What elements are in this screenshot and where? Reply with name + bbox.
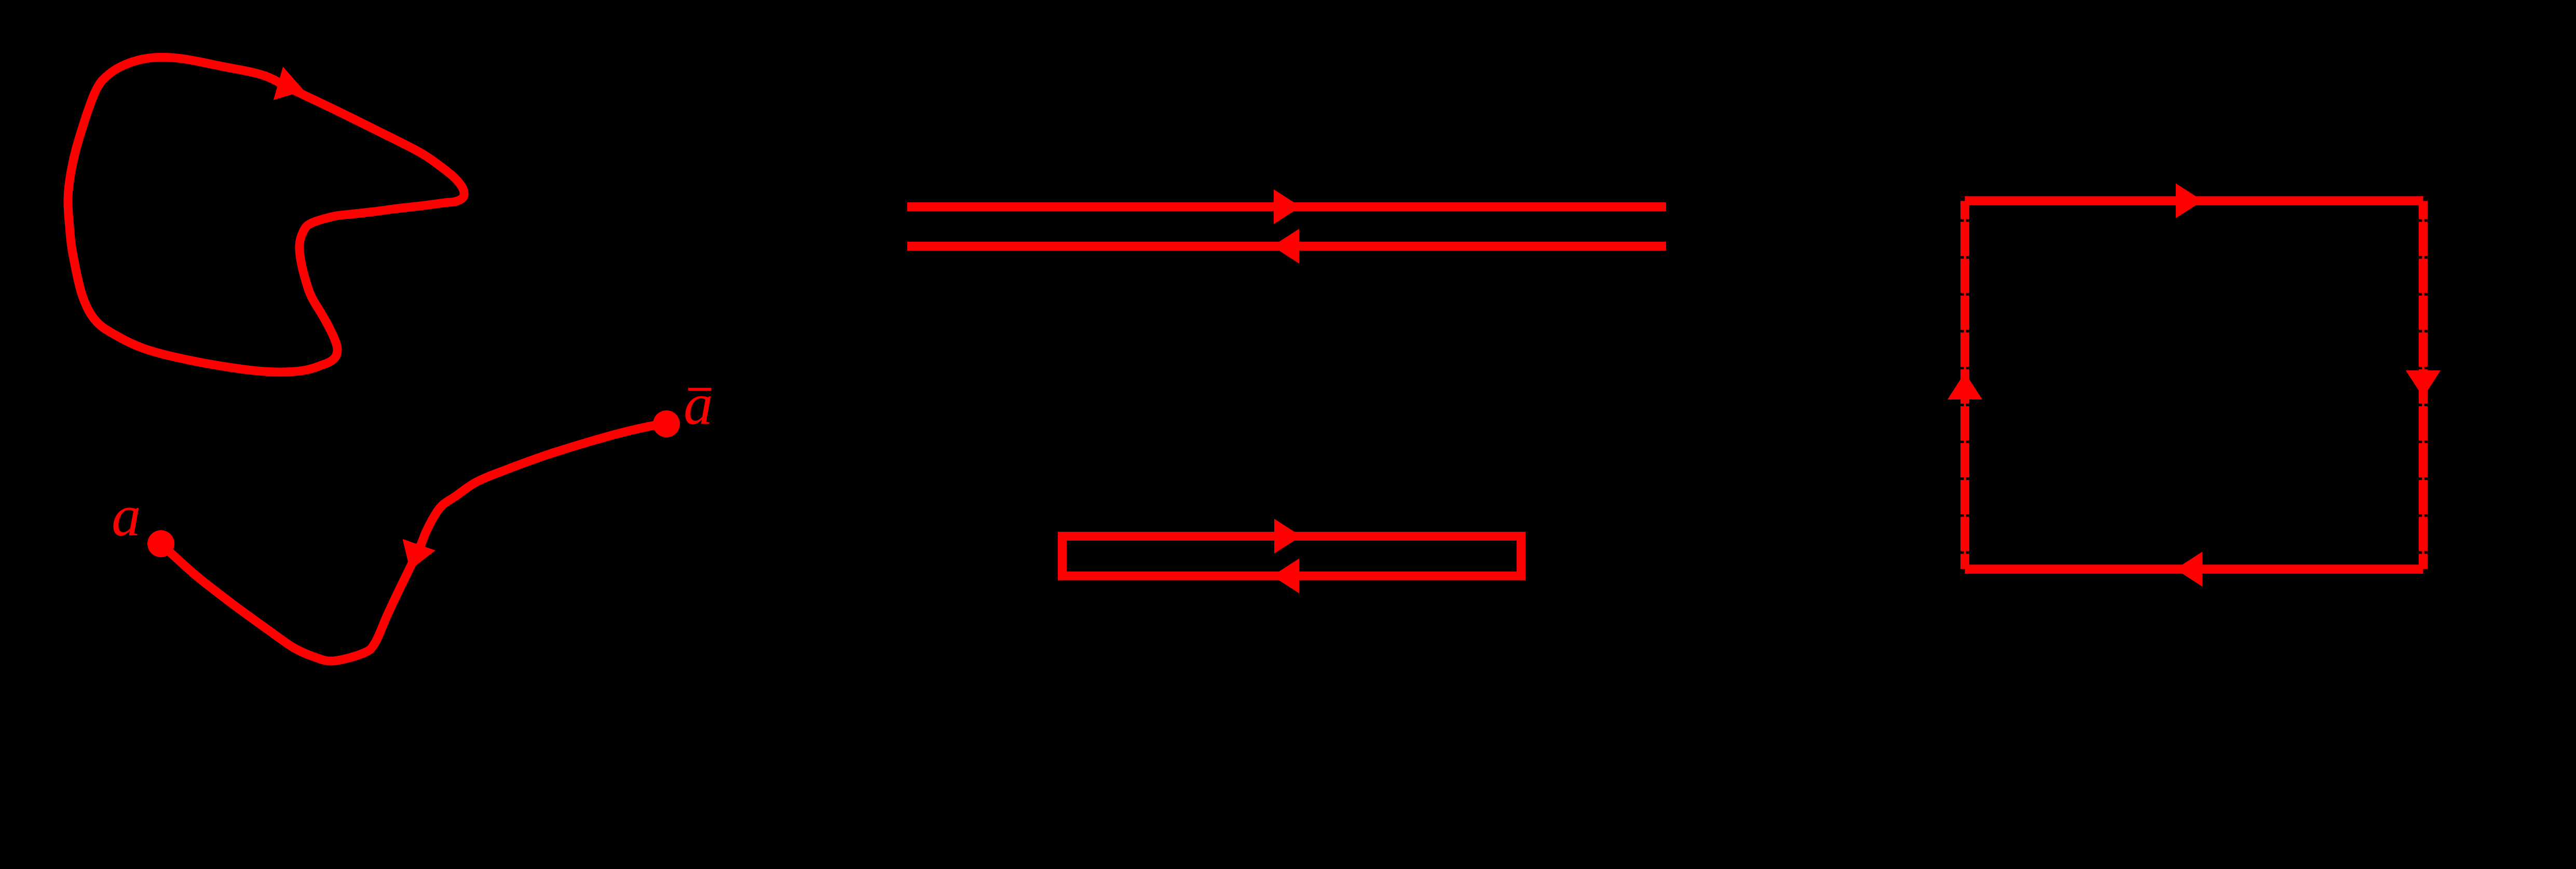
square: right edge — [2419, 196, 2428, 574]
arrowhead on bottom strand (left) — [1272, 229, 1299, 264]
arrowhead on loop — [274, 67, 304, 100]
point abar — [653, 410, 680, 437]
arrowhead on top strand (right) — [1274, 189, 1301, 224]
arrowhead on path (pointing down-left) — [403, 539, 435, 570]
double horizontal line: bottom strand — [907, 242, 1666, 251]
square: left edge — [1960, 196, 1969, 574]
square top arrow (right) — [2176, 184, 2203, 218]
thin rectangle loop — [1062, 536, 1521, 576]
double horizontal line: top strand — [907, 202, 1666, 211]
tick marks on square left and right edges — [1960, 219, 2428, 554]
square: top edge — [1960, 196, 2428, 205]
corner notches on square — [1960, 196, 1965, 201]
point a — [147, 530, 174, 557]
square left arrow (up) — [1947, 373, 1982, 399]
rectangle top arrow — [1274, 519, 1301, 554]
square bottom arrow (left) — [2175, 552, 2202, 587]
rectangle bottom arrow — [1272, 559, 1299, 594]
closed loop curve alpha — [68, 57, 464, 372]
path from a to abar — [161, 424, 666, 661]
square: bottom edge — [1960, 564, 2428, 574]
square right arrow (down) — [2406, 370, 2441, 397]
svg-text:a: a — [684, 372, 713, 437]
svg-text:a: a — [112, 484, 141, 548]
